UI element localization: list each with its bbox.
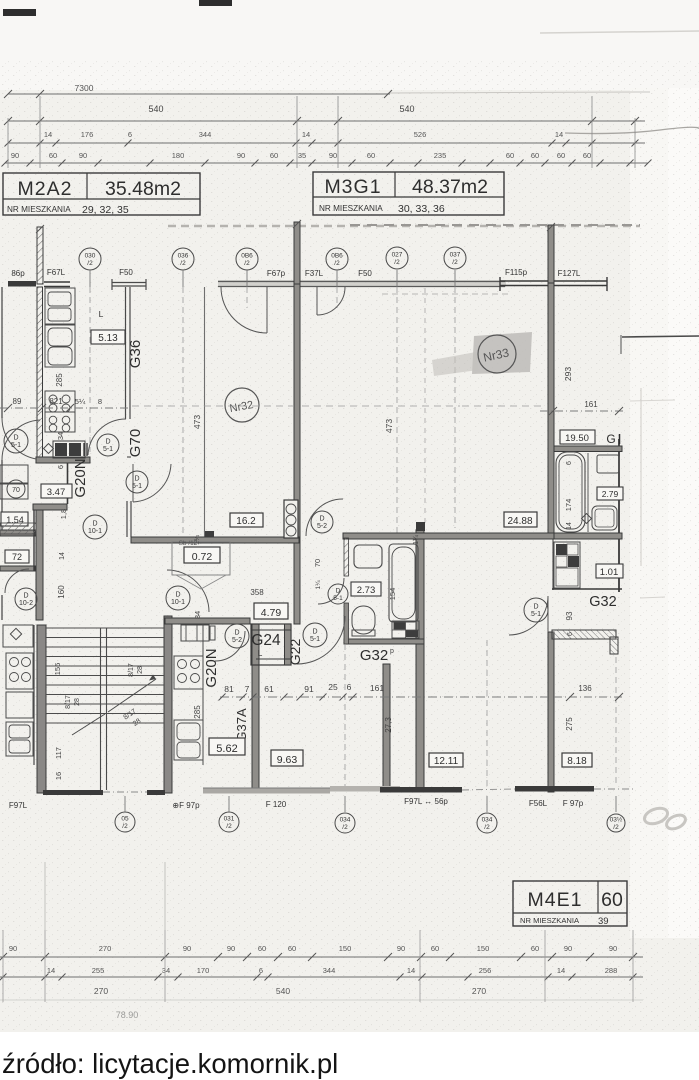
party wall stub above window M3G1 right bbox=[548, 225, 554, 283]
svg-text:61: 61 bbox=[264, 684, 274, 694]
diamond mark kitchen bbox=[44, 444, 54, 454]
svg-text:0.72: 0.72 bbox=[192, 551, 213, 563]
svg-text:0B6: 0B6 bbox=[331, 253, 343, 260]
svg-text:60: 60 bbox=[367, 151, 375, 160]
wall right column y446 (19.50) bbox=[554, 446, 622, 452]
svg-text:9.63: 9.63 bbox=[277, 754, 298, 766]
bottom gray wall band mid bbox=[330, 786, 400, 792]
door label D 5-2 Nr33 bbox=[311, 511, 333, 533]
svg-text:/2: /2 bbox=[452, 259, 458, 266]
svg-text:G20N: G20N bbox=[72, 458, 89, 497]
area label 1.54 bbox=[1, 512, 28, 526]
svg-text:90: 90 bbox=[11, 151, 19, 160]
svg-text:14: 14 bbox=[566, 522, 573, 530]
right small box top bbox=[597, 455, 619, 473]
svg-text:235: 235 bbox=[434, 151, 447, 160]
svg-text:24.88: 24.88 bbox=[507, 516, 532, 527]
svg-text:12.11: 12.11 bbox=[434, 756, 459, 767]
svg-text:037: 037 bbox=[450, 252, 461, 259]
bath tub M3G1 bbox=[389, 544, 418, 622]
svg-text:288: 288 bbox=[605, 966, 618, 975]
svg-text:G36: G36 bbox=[127, 340, 144, 368]
left hatched strip bbox=[0, 523, 36, 534]
svg-text:D: D bbox=[23, 593, 28, 600]
svg-text:M3G1: M3G1 bbox=[324, 176, 381, 198]
right lighter paper strip bbox=[630, 88, 699, 938]
svg-text:34: 34 bbox=[193, 611, 202, 619]
dim line right y411 bbox=[540, 410, 625, 412]
svg-text:G: G bbox=[606, 432, 615, 446]
svg-text:F50: F50 bbox=[119, 268, 133, 277]
svg-text:F 120: F 120 bbox=[266, 800, 287, 809]
stair stringer bbox=[100, 628, 102, 790]
svg-text:F127L: F127L bbox=[558, 269, 581, 278]
svg-text:90: 90 bbox=[9, 944, 17, 953]
svg-text:60: 60 bbox=[258, 944, 266, 953]
door label D 10-1 stair bbox=[166, 586, 190, 610]
diamond mark right bbox=[582, 514, 592, 524]
G20N stove burners bbox=[174, 656, 203, 689]
svg-text:5-1: 5-1 bbox=[132, 483, 142, 490]
svg-text:10-2: 10-2 bbox=[19, 600, 33, 607]
area label 1.01 bbox=[596, 564, 623, 578]
door label D 5-2 G20N bbox=[225, 624, 249, 648]
duct shaft with pipes at wall end bbox=[284, 500, 298, 538]
area label 0.72 left bbox=[5, 550, 29, 563]
svg-text:285: 285 bbox=[193, 705, 202, 719]
svg-text:89: 89 bbox=[13, 397, 22, 406]
hall closet outline bbox=[172, 542, 230, 575]
svg-text:5-1: 5-1 bbox=[103, 446, 113, 453]
position circle 0B6/2 bbox=[236, 248, 258, 270]
kitchen dark stove unit bbox=[53, 441, 85, 458]
left stove burners bbox=[6, 653, 33, 689]
svg-text:161: 161 bbox=[584, 400, 598, 409]
svg-text:8/17: 8/17 bbox=[128, 663, 135, 677]
svg-text:G24: G24 bbox=[251, 632, 281, 649]
door arc balcony 0B6 left with leaf bbox=[221, 287, 267, 333]
svg-text:29, 32, 35: 29, 32, 35 bbox=[82, 204, 129, 216]
footer white strip bbox=[0, 1032, 699, 1080]
door arc left 72 room bbox=[5, 569, 29, 593]
title box M2A2 35.48m2 bbox=[3, 173, 200, 215]
svg-text:60: 60 bbox=[531, 151, 539, 160]
handwritten circle Nr33 bbox=[478, 335, 516, 373]
svg-text:F67p: F67p bbox=[267, 269, 286, 278]
svg-text:G22: G22 bbox=[287, 639, 303, 666]
svg-text:255: 255 bbox=[92, 966, 105, 975]
area label 4.79 bbox=[254, 603, 288, 619]
bottom gray wall band left bbox=[203, 788, 330, 794]
bath washer M3G1 bbox=[392, 621, 419, 638]
svg-text:35.48m2: 35.48m2 bbox=[105, 178, 181, 200]
scan artifact faint line top right bbox=[540, 31, 699, 33]
kitchen stove burners M2A2 bbox=[45, 391, 75, 412]
svg-text:60: 60 bbox=[431, 944, 439, 953]
dim line right y697 bbox=[554, 696, 625, 698]
svg-text:34: 34 bbox=[56, 432, 65, 440]
thin wall right washer area bbox=[552, 536, 554, 590]
door arc G70 bbox=[133, 464, 171, 502]
svg-text:25: 25 bbox=[328, 682, 338, 692]
wall right of Nr33 room bbox=[548, 283, 554, 535]
svg-text:19.50: 19.50 bbox=[565, 433, 589, 444]
svg-text:72: 72 bbox=[12, 552, 22, 562]
door label D 5-1 far left bbox=[4, 429, 28, 453]
svg-text:293: 293 bbox=[563, 367, 573, 381]
svg-text:027: 027 bbox=[392, 252, 403, 259]
area label 12.11 bbox=[429, 753, 463, 767]
svg-text:F50: F50 bbox=[358, 269, 372, 278]
svg-text:5.62: 5.62 bbox=[216, 743, 237, 755]
position circle 027/2 bbox=[386, 247, 408, 269]
svg-text:5.13: 5.13 bbox=[98, 333, 118, 344]
svg-text:27,3: 27,3 bbox=[384, 717, 393, 733]
svg-text:6: 6 bbox=[128, 130, 132, 139]
svg-text:285: 285 bbox=[55, 373, 64, 387]
svg-text:93: 93 bbox=[565, 611, 574, 620]
window F50 left bbox=[112, 282, 146, 284]
svg-text:90: 90 bbox=[237, 151, 245, 160]
dash line below top wall Nr33 bbox=[382, 293, 509, 295]
svg-text:/2: /2 bbox=[613, 824, 619, 831]
wall right column y588 thin bbox=[552, 588, 622, 590]
svg-text:D: D bbox=[105, 439, 110, 446]
svg-text:16.2: 16.2 bbox=[236, 516, 256, 527]
svg-text:3.47: 3.47 bbox=[47, 487, 66, 498]
svg-text:5¼: 5¼ bbox=[75, 397, 86, 406]
kitchen sink unit M2A2 bbox=[45, 288, 75, 324]
svg-text:030: 030 bbox=[85, 253, 96, 260]
G20N counter edge bbox=[202, 624, 204, 765]
party wall stub above window M2A2-M3G1 bbox=[294, 222, 300, 284]
svg-text:4.79: 4.79 bbox=[261, 607, 282, 619]
svg-text:05: 05 bbox=[121, 816, 129, 823]
svg-text:źródło: licytacje.komornik.pl: źródło: licytacje.komornik.pl bbox=[2, 1048, 338, 1079]
right washer block bbox=[554, 542, 580, 588]
bottom position circle 034/2 a bbox=[335, 813, 355, 833]
svg-text:03½: 03½ bbox=[610, 816, 623, 824]
svg-text:70: 70 bbox=[12, 487, 20, 494]
svg-text:90: 90 bbox=[564, 944, 572, 953]
svg-text:NR MIESZKANIA: NR MIESZKANIA bbox=[7, 205, 71, 214]
bottom witness verticals bbox=[2, 930, 4, 1002]
svg-text:6: 6 bbox=[566, 461, 573, 465]
svg-text:16: 16 bbox=[54, 772, 63, 780]
svg-text:10-1: 10-1 bbox=[88, 528, 102, 535]
position circle 037/2 bbox=[444, 247, 466, 269]
area label 19.50 bbox=[560, 430, 595, 444]
svg-text:154: 154 bbox=[388, 588, 397, 601]
bottom position circle 034/2 b bbox=[477, 813, 497, 833]
scan artifact faint vertical line bbox=[640, 388, 642, 566]
scan artifact pencil blobs bottom right bbox=[642, 805, 669, 826]
svg-text:60: 60 bbox=[557, 151, 565, 160]
svg-text:473: 473 bbox=[192, 415, 202, 429]
pier at hatched band end bbox=[610, 637, 618, 654]
top dim row 14 176 6 344 14 526 14 bbox=[8, 142, 645, 144]
svg-text:160: 160 bbox=[57, 585, 66, 599]
svg-text:174: 174 bbox=[564, 499, 573, 512]
svg-text:L: L bbox=[99, 309, 104, 319]
door arc hall D10-1 bbox=[167, 570, 209, 612]
bottom circle leaders bbox=[124, 796, 126, 812]
svg-text:176: 176 bbox=[81, 130, 94, 139]
svg-text:81: 81 bbox=[224, 684, 234, 694]
svg-text:8.18: 8.18 bbox=[567, 756, 587, 767]
svg-text:14: 14 bbox=[557, 966, 565, 975]
svg-text:161: 161 bbox=[370, 683, 384, 693]
svg-text:D: D bbox=[336, 588, 341, 595]
bottom position circle 05/2 bbox=[115, 812, 135, 832]
wall under Nr32 room bbox=[131, 537, 299, 543]
svg-text:D: D bbox=[92, 521, 97, 528]
svg-text:39: 39 bbox=[598, 916, 609, 927]
svg-text:6: 6 bbox=[347, 682, 352, 692]
svg-text:90: 90 bbox=[329, 151, 337, 160]
svg-text:F115p: F115p bbox=[505, 268, 528, 277]
svg-text:G37A: G37A bbox=[234, 708, 249, 742]
svg-text:M4E1: M4E1 bbox=[528, 889, 583, 911]
stairwell left wall bbox=[37, 625, 46, 793]
svg-text:14: 14 bbox=[44, 130, 52, 139]
svg-text:170: 170 bbox=[197, 966, 210, 975]
svg-text:180: 180 bbox=[172, 151, 185, 160]
area label 5.62 bbox=[209, 738, 245, 755]
top dim row 90 60 90 180 90 60 35 90 60 235 60 60 60 60 bbox=[5, 162, 648, 164]
svg-text:150: 150 bbox=[477, 944, 490, 953]
svg-text:60: 60 bbox=[270, 151, 278, 160]
hall wall piece y504 bbox=[33, 504, 67, 510]
Nr32 room left wall thin bbox=[204, 287, 206, 537]
stair treads bbox=[46, 627, 164, 629]
door arc left apartment entry bbox=[2, 420, 40, 460]
svg-text:91: 91 bbox=[304, 684, 314, 694]
svg-text:/2: /2 bbox=[122, 823, 128, 830]
area label 2.73 bbox=[351, 582, 381, 596]
svg-text:90: 90 bbox=[609, 944, 617, 953]
svg-text:D: D bbox=[312, 629, 317, 636]
dash centreline Nr32/Nr33 y406 bbox=[132, 405, 293, 407]
svg-text:526: 526 bbox=[414, 130, 427, 139]
bottom position circle 031/2 bbox=[219, 812, 239, 832]
area label 5.13 bbox=[91, 330, 125, 344]
svg-text:5-2: 5-2 bbox=[232, 637, 242, 644]
svg-text:7: 7 bbox=[245, 684, 250, 694]
svg-text:6: 6 bbox=[567, 632, 574, 636]
svg-text:1¼: 1¼ bbox=[194, 535, 201, 545]
svg-text:5-1: 5-1 bbox=[333, 595, 343, 602]
svg-text:D: D bbox=[533, 604, 538, 611]
G70 wall lower part bbox=[126, 501, 128, 537]
bottom small sill bbox=[147, 790, 165, 795]
svg-text:7300: 7300 bbox=[75, 83, 94, 93]
svg-text:60: 60 bbox=[583, 151, 591, 160]
svg-text:G32: G32 bbox=[589, 594, 616, 610]
svg-text:/2: /2 bbox=[394, 259, 400, 266]
svg-text:M2A2: M2A2 bbox=[18, 178, 73, 200]
door label D 10-2 left bbox=[15, 588, 37, 610]
svg-text:NR MIESZKANIA: NR MIESZKANIA bbox=[520, 916, 580, 925]
svg-text:D: D bbox=[134, 476, 139, 483]
door label D 5-1 G22 bbox=[303, 623, 327, 647]
title box M3G1 48.37m2 bbox=[313, 172, 504, 215]
svg-text:48.37m2: 48.37m2 bbox=[412, 176, 488, 198]
kitchen G36 wall (thin double) bbox=[125, 287, 127, 419]
svg-text:1.01: 1.01 bbox=[600, 567, 619, 578]
left fixtures upper boxes bbox=[0, 465, 28, 483]
left unit box bbox=[6, 692, 33, 718]
scan crease line right bbox=[565, 127, 699, 133]
wall left edge bbox=[1, 287, 3, 418]
bottom position circle 03/2 c bbox=[607, 814, 625, 832]
door arc G22 entry bbox=[297, 616, 345, 664]
svg-text:60: 60 bbox=[288, 944, 296, 953]
svg-text:F37L: F37L bbox=[305, 269, 324, 278]
svg-text:270: 270 bbox=[472, 986, 486, 996]
scan artifact black dash top bbox=[199, 0, 232, 6]
bath M3G1 left wall hatched bbox=[344, 538, 349, 576]
svg-text:14: 14 bbox=[302, 130, 310, 139]
title box M4E1 60 bottom right bbox=[513, 881, 627, 926]
svg-text:90: 90 bbox=[397, 944, 405, 953]
svg-text:270: 270 bbox=[94, 986, 108, 996]
svg-text:821: 821 bbox=[49, 397, 63, 406]
svg-text:034: 034 bbox=[340, 817, 351, 824]
svg-text:5-1: 5-1 bbox=[531, 611, 541, 618]
svg-text:90: 90 bbox=[183, 944, 191, 953]
svg-text:156: 156 bbox=[53, 663, 62, 676]
area label 16.2 bbox=[230, 513, 263, 527]
bottom dim row2 bbox=[0, 976, 643, 978]
handwritten circle Nr32 bbox=[225, 388, 259, 422]
svg-text:/2: /2 bbox=[334, 260, 340, 267]
svg-text:60: 60 bbox=[601, 889, 623, 911]
svg-text:256: 256 bbox=[479, 966, 492, 975]
bath M3G1 bottom wall bbox=[344, 639, 424, 644]
pier at Nr32 wall junction bbox=[205, 531, 214, 541]
position circle 0B6/2 b bbox=[326, 248, 348, 270]
svg-text:⊕F 97p: ⊕F 97p bbox=[172, 801, 200, 810]
door arc left kitchen lower bbox=[2, 418, 36, 459]
svg-text:473: 473 bbox=[384, 419, 394, 433]
svg-text:/2: /2 bbox=[87, 260, 93, 267]
svg-text:60: 60 bbox=[531, 944, 539, 953]
svg-text:D: D bbox=[319, 516, 324, 523]
svg-text:p: p bbox=[390, 648, 394, 655]
area label 24.88 bbox=[504, 512, 537, 527]
svg-text:L: L bbox=[258, 648, 263, 658]
right washbasin bbox=[592, 506, 617, 530]
left sink unit bbox=[6, 722, 33, 756]
door arc room 12.11 bbox=[509, 596, 548, 635]
svg-text:14: 14 bbox=[59, 552, 66, 560]
window 86p sill bbox=[8, 281, 36, 287]
svg-text:5-1: 5-1 bbox=[11, 442, 21, 449]
area label 3.47 bbox=[41, 484, 72, 498]
svg-text:/2: /2 bbox=[484, 824, 490, 831]
G20N sink unit bbox=[181, 625, 209, 641]
svg-text:35: 35 bbox=[298, 151, 306, 160]
divider line right bath bbox=[587, 453, 589, 532]
exterior wall lines over band bbox=[218, 281, 505, 283]
door label D 10-1 hall left bbox=[83, 515, 107, 539]
door label D 5-1 bath bbox=[328, 584, 348, 604]
window F97L sill bottom bbox=[43, 790, 103, 795]
area label 0.72 hall bbox=[184, 547, 220, 563]
lower right wall W7 bbox=[548, 632, 554, 792]
right bath tub bbox=[556, 452, 585, 532]
door arc Nr33 hall D5-2 bbox=[306, 499, 343, 536]
svg-text:F56L: F56L bbox=[529, 799, 548, 808]
svg-text:70: 70 bbox=[313, 559, 322, 567]
svg-text:/2: /2 bbox=[342, 824, 348, 831]
wall between Nr32 and Nr33 apartments bbox=[294, 284, 300, 624]
door arc bath M3G1 bbox=[318, 578, 344, 604]
position circle 036/2 bbox=[172, 248, 194, 270]
svg-text:136: 136 bbox=[578, 684, 592, 693]
svg-text:78.90: 78.90 bbox=[116, 1010, 139, 1020]
svg-text:G70: G70 bbox=[127, 429, 144, 457]
Nr33 room centre dashed line bbox=[424, 288, 426, 528]
scan artifact black dash top-left bbox=[3, 9, 36, 16]
wall left of room 9.63 bbox=[383, 664, 390, 792]
svg-text:86p: 86p bbox=[11, 269, 25, 278]
area label 2.79 bbox=[597, 487, 623, 500]
svg-text:NR MIESZKANIA: NR MIESZKANIA bbox=[319, 204, 383, 213]
wall under Nr33 / bath top bbox=[343, 533, 554, 539]
wall right column y536 bbox=[554, 533, 622, 539]
bottom T wall F56L F97p bbox=[515, 786, 594, 792]
top dim line overall 7300 bbox=[8, 93, 390, 95]
left fixtures frame walls bbox=[0, 530, 35, 536]
hall-kitchen wall y618 bbox=[165, 618, 250, 624]
door arc kitchen G36 bbox=[88, 419, 126, 455]
window F115p and F127L wall lines bbox=[500, 280, 607, 282]
wall piece kitchen to hall bbox=[67, 463, 69, 504]
party wall stub above window M2A2 bbox=[37, 227, 43, 284]
svg-text:F97L: F97L bbox=[9, 801, 28, 810]
svg-text:270: 270 bbox=[99, 944, 112, 953]
svg-text:D: D bbox=[234, 630, 239, 637]
svg-text:F 97p: F 97p bbox=[563, 799, 584, 808]
svg-text:0B6: 0B6 bbox=[241, 253, 253, 260]
G20N lower units bbox=[174, 720, 203, 760]
scan artifact fuzzy dashed band under title boxes bbox=[168, 225, 640, 228]
bath toilet M3G1 bbox=[352, 606, 375, 634]
svg-text:60: 60 bbox=[49, 151, 57, 160]
svg-text:14: 14 bbox=[555, 130, 563, 139]
svg-text:150: 150 bbox=[339, 944, 352, 953]
svg-text:90: 90 bbox=[227, 944, 235, 953]
svg-text:F67L: F67L bbox=[47, 268, 66, 277]
svg-text:1,8: 1,8 bbox=[59, 509, 68, 519]
svg-text:344: 344 bbox=[323, 966, 336, 975]
hatched band lower right bbox=[552, 630, 616, 639]
wall big lower middle (G37A right) bbox=[416, 530, 424, 792]
door label D 5-1 kitchen bbox=[97, 434, 119, 456]
stair direction arrow bbox=[72, 714, 105, 735]
svg-text:34: 34 bbox=[162, 966, 170, 975]
door label D 5-1 right bbox=[524, 598, 548, 622]
window F67L bbox=[44, 281, 70, 283]
svg-text:28: 28 bbox=[137, 666, 144, 674]
leaders from position circles bbox=[89, 270, 91, 287]
svg-text:034: 034 bbox=[482, 817, 493, 824]
closet G24 walls bbox=[251, 624, 291, 665]
tick marks at wall stubs bbox=[36, 225, 44, 233]
svg-text:8/17: 8/17 bbox=[65, 695, 72, 709]
